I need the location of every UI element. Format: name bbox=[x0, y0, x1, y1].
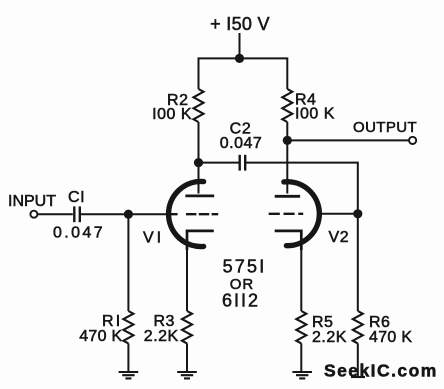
resistor R5 bbox=[296, 311, 306, 343]
node V1 plate node bbox=[194, 158, 203, 167]
terminal INPUT bbox=[30, 211, 37, 218]
svg-text:SeekIC.com: SeekIC.com bbox=[324, 361, 438, 381]
svg-text:575I: 575I bbox=[223, 257, 267, 277]
svg-text:470 K: 470 K bbox=[79, 328, 122, 345]
svg-text:470 K: 470 K bbox=[369, 329, 412, 346]
wire V2 grid from tube bbox=[320, 213, 358, 215]
wire supply feed bbox=[239, 33, 241, 58]
svg-text:0.047: 0.047 bbox=[53, 224, 105, 241]
svg-text:I00 K: I00 K bbox=[152, 106, 192, 123]
wire V2 plate lead bbox=[286, 140, 288, 193]
svg-text:I00 K: I00 K bbox=[295, 106, 335, 123]
svg-text:2.2K: 2.2K bbox=[144, 328, 179, 345]
capacitor C1 bbox=[74, 206, 80, 222]
svg-text:0.047: 0.047 bbox=[220, 135, 263, 152]
tube V1 plate bbox=[185, 194, 214, 197]
resistor R1 bbox=[123, 311, 133, 343]
wire R5 to ground bbox=[300, 343, 302, 372]
wire C1 to input junction bbox=[80, 213, 128, 215]
wire R6 lead bbox=[357, 214, 359, 311]
tube V2 envelope bbox=[284, 182, 319, 246]
wire V1 plate lead bbox=[198, 163, 200, 194]
svg-text:VI: VI bbox=[143, 230, 164, 247]
wire R4 to output node bbox=[286, 122, 288, 140]
wire V1 grid lead bbox=[128, 213, 166, 215]
node input junction bbox=[124, 210, 133, 219]
tube V2 plate bbox=[275, 195, 300, 198]
node V2 grid junction bbox=[353, 209, 362, 218]
wire C2 left bbox=[199, 162, 240, 164]
ground R3 bbox=[177, 372, 197, 378]
node output junction bbox=[283, 136, 292, 145]
tube V1 cathode bbox=[187, 231, 214, 250]
resistor R4 bbox=[282, 89, 292, 122]
resistor R3 bbox=[182, 311, 192, 343]
svg-text:2.2K: 2.2K bbox=[312, 329, 347, 346]
capacitor C2 bbox=[240, 155, 246, 171]
svg-text:+ I50 V: + I50 V bbox=[210, 14, 270, 34]
wire V1 cathode lead bbox=[186, 250, 188, 311]
wire V2 cathode lead bbox=[300, 250, 302, 311]
tube V2 bbox=[269, 182, 320, 250]
terminal OUTPUT bbox=[409, 137, 416, 144]
ground R5 bbox=[292, 372, 312, 378]
tube V1 envelope bbox=[169, 182, 204, 247]
wire R1 lead bbox=[127, 214, 129, 311]
svg-text:OUTPUT: OUTPUT bbox=[353, 119, 417, 136]
tube V1 bbox=[169, 182, 219, 251]
svg-text:CI: CI bbox=[68, 189, 85, 206]
tube V2 cathode bbox=[275, 231, 302, 250]
ground R6 bbox=[351, 376, 365, 378]
resistor R6 bbox=[353, 311, 363, 343]
wire input bbox=[38, 213, 73, 215]
wire B+ rail bbox=[199, 58, 288, 89]
ground R1 bbox=[119, 372, 139, 378]
resistor R2 bbox=[194, 89, 204, 122]
tube V2 grid bbox=[269, 213, 304, 215]
node supply junction bbox=[235, 54, 244, 63]
svg-text:INPUT: INPUT bbox=[8, 193, 56, 210]
wire R1 to ground bbox=[127, 343, 129, 372]
wire R6 to ground bbox=[357, 343, 359, 377]
wire C2 right to V2 grid bbox=[246, 163, 358, 214]
tube V1 grid bbox=[170, 213, 218, 215]
wire R3 to ground bbox=[186, 343, 188, 372]
wire output bbox=[287, 139, 409, 141]
svg-text:V2: V2 bbox=[329, 229, 350, 246]
svg-text:6II2: 6II2 bbox=[222, 291, 260, 311]
wire R2 to V1 plate node bbox=[198, 122, 200, 163]
